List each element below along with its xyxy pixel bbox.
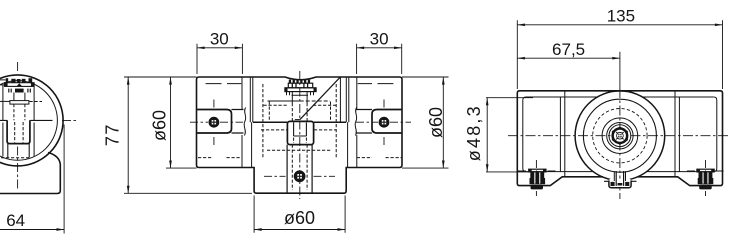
svg-text:ø60: ø60 — [426, 107, 446, 138]
arrow 64 right — [57, 228, 65, 231]
hidden horizontal mid — [261, 129, 336, 131]
bolt shank — [14, 93, 25, 101]
center bolt top view — [611, 127, 628, 145]
part outline — [197, 77, 403, 193]
mini bolt left — [518, 160, 558, 196]
lower clamp bolt — [294, 170, 306, 182]
dimension 64 — [0, 125, 64, 234]
top washer — [285, 88, 316, 92]
dimension ø48,3 — [486, 98, 533, 172]
right pocket — [355, 100, 411, 146]
cap right edge — [714, 97, 717, 172]
joint line — [253, 121, 346, 123]
svg-text:77: 77 — [102, 123, 122, 146]
dimension 135 — [517, 20, 722, 89]
cap line left — [206, 83, 242, 85]
bolt shank solid — [292, 91, 307, 103]
triangle right side — [339, 77, 341, 122]
center line lower bolt — [264, 175, 335, 177]
hidden lines side blocks — [198, 157, 402, 159]
boss circle — [575, 91, 665, 181]
body below clamp — [0, 153, 60, 194]
cap verticals left — [250, 77, 253, 122]
centerline horizontal right — [62, 119, 76, 121]
cap inner verticals — [560, 97, 679, 172]
dimension ø60 left — [166, 77, 197, 168]
collar line left — [0, 100, 10, 102]
block boundary verticals — [565, 92, 675, 177]
svg-text:ø60: ø60 — [284, 208, 315, 228]
hidden dashes right of collar — [30, 101, 43, 103]
dimension 30 left — [197, 44, 242, 74]
diagonal section break — [300, 77, 341, 120]
nut center — [294, 123, 307, 137]
lower flange tier — [9, 89, 31, 93]
svg-text:30: 30 — [210, 29, 229, 48]
joint line — [0, 119, 53, 121]
face line bottom — [526, 171, 714, 173]
outer circle ø60 — [0, 75, 63, 166]
center dashes — [356, 100, 411, 146]
part outline — [517, 91, 722, 186]
collar washer — [10, 101, 29, 105]
boss verticals — [252, 122, 348, 167]
hidden horizontal low — [267, 149, 332, 151]
svg-text:30: 30 — [370, 29, 389, 48]
break wavy line — [355, 108, 357, 136]
left pocket — [190, 100, 246, 146]
svg-text:ø48,3: ø48,3 — [464, 104, 484, 161]
dimension ø60 bottom — [254, 196, 345, 233]
mini bolt right — [687, 160, 724, 196]
right clamp bolt — [379, 117, 390, 128]
hidden bolt below pocket — [292, 145, 307, 190]
ring circles — [602, 118, 638, 154]
break wavy line — [244, 108, 246, 136]
washer teeth — [287, 92, 314, 96]
top bolt head — [288, 83, 312, 88]
hidden shank — [14, 104, 25, 120]
slot cheeks — [8, 144, 29, 158]
clamp slit lines top left — [0, 80, 6, 85]
left clamp bolt — [209, 117, 220, 128]
head facets — [292, 83, 307, 88]
bottom edge ticks near tab — [604, 180, 637, 182]
nut pocket center — [287, 121, 313, 144]
hidden socket verticals — [269, 102, 330, 123]
center line vertical — [299, 71, 301, 199]
center line vertical — [619, 88, 621, 199]
svg-text:64: 64 — [6, 211, 25, 230]
svg-text:135: 135 — [607, 7, 635, 26]
washer band — [5, 83, 35, 87]
dimension 67,5 — [517, 57, 620, 59]
cap line right — [358, 83, 394, 85]
washer end caps — [285, 88, 288, 92]
nut pocket — [7, 120, 30, 143]
center line horizontal — [508, 135, 730, 137]
face line top — [526, 96, 714, 98]
bolt shank hidden — [292, 103, 307, 122]
clamp inner walls — [3, 85, 34, 157]
hidden socket horizontal — [264, 104, 337, 106]
cap verticals right — [346, 77, 349, 122]
hidden nut — [15, 122, 23, 143]
hidden nut center — [294, 138, 307, 144]
ledge at diagonal base — [295, 119, 300, 121]
dimension ø60 right — [402, 77, 449, 168]
block boundary right — [356, 77, 358, 168]
dimension 30 right — [357, 44, 402, 74]
pocket floor line — [268, 100, 300, 102]
block boundary left — [241, 77, 243, 168]
svg-text:67,5: 67,5 — [552, 40, 585, 59]
cap left edge — [523, 97, 526, 172]
center dashes — [190, 100, 243, 146]
hidden line bottom — [0, 157, 31, 159]
svg-text:ø60: ø60 — [149, 110, 169, 141]
inner circle ø48.3 — [0, 81, 57, 161]
socket circle ø48.3 — [583, 99, 656, 172]
hidden bore right — [335, 84, 337, 158]
bottom tab — [609, 171, 631, 188]
hidden bore left — [262, 84, 264, 158]
head serration teeth — [289, 80, 310, 84]
dimension 77 — [124, 77, 252, 193]
head serration teeth — [6, 78, 33, 83]
slot cheeks lower — [287, 145, 312, 193]
centerline vertical — [17, 62, 19, 190]
hidden circle — [593, 109, 647, 163]
